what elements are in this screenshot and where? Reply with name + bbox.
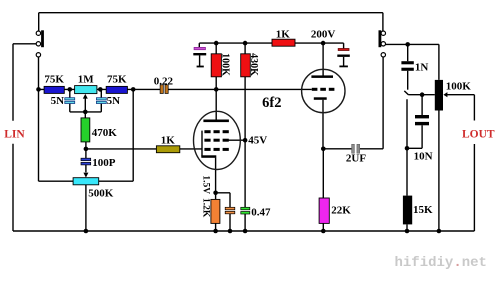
svg-text:5N: 5N [51, 95, 65, 107]
svg-text:0.47: 0.47 [251, 207, 271, 219]
wire 2UF row [323, 148, 383, 150]
wire left edge vertical (gap at LIN label) [12, 44, 14, 231]
wire top bus from left jack to right jack [39, 12, 383, 14]
jack left connector [36, 30, 44, 57]
wire left jack tip to left edge [13, 43, 36, 45]
wire 1N top lead [407, 44, 409, 61]
wire 15K branch [406, 99, 408, 231]
capacitor 1N [401, 61, 413, 71]
wire 1N bottom lead [407, 71, 409, 90]
potentiometer 500K [73, 178, 99, 185]
resistor 100K plate load [211, 54, 221, 77]
resistor 22K [319, 198, 329, 223]
pentode cathode bar [201, 155, 216, 158]
wire 500K to ground [85, 185, 87, 231]
svg-text:1K: 1K [276, 28, 291, 40]
wire bracket joining 5N caps [70, 111, 102, 113]
svg-text:LOUT: LOUT [462, 128, 495, 140]
capacitor electrolytic magenta [193, 47, 206, 55]
wire right edge up to wiper (gap at LOUT label) [446, 95, 474, 231]
magenta cap bottom stub [197, 66, 204, 68]
wire right jack tip to 100K pot top [385, 44, 439, 80]
capacitor electrolytic red [337, 49, 350, 57]
wire node B down through 10N [407, 95, 422, 149]
wire pentode cathode lead [215, 158, 217, 231]
resistor 75K left [44, 86, 64, 93]
resistor 15K [403, 196, 412, 225]
svg-text:200V: 200V [311, 28, 336, 40]
wire pentode cathode to bypass cap [216, 193, 230, 231]
wire red cap lead [343, 57, 345, 66]
capacitor 100P [81, 158, 91, 165]
resistor 430K screen [241, 54, 251, 77]
pentode plate bar [203, 120, 229, 123]
svg-text:1N: 1N [415, 61, 429, 73]
svg-text:500K: 500K [88, 187, 114, 199]
svg-text:1.5V: 1.5V [201, 175, 211, 194]
svg-text:100P: 100P [92, 157, 116, 169]
svg-text:1K: 1K [161, 135, 176, 147]
svg-text:75K: 75K [107, 74, 127, 86]
svg-text:1M: 1M [78, 74, 95, 86]
wire magenta cap leads [198, 43, 200, 66]
pentode grid row 2 [204, 139, 228, 142]
wire left jack contact down to node A [38, 57, 40, 90]
wire grid feed row with 1K [86, 148, 202, 150]
svg-text:430K: 430K [248, 53, 259, 76]
wire triode plate lead [322, 43, 324, 76]
wire 470K to 100P [85, 142, 87, 158]
wire wiper row left of pot [408, 94, 435, 96]
capacitor 0.47 [241, 207, 250, 214]
wire B+ rail [199, 43, 343, 48]
capacitor 2UF [352, 144, 360, 153]
svg-text:75K: 75K [44, 74, 64, 86]
wire screen grid to 45V node [227, 139, 245, 141]
wire 100K pot bottom to ground [438, 111, 440, 232]
svg-text:hifidiy.net: hifidiy.net [395, 255, 487, 271]
svg-text:15K: 15K [413, 204, 433, 216]
resistor 1K rail [272, 39, 295, 46]
port label LIN [3, 123, 25, 142]
pentode grid row 3 [204, 148, 228, 151]
svg-text:1.2K: 1.2K [201, 198, 211, 218]
pentode grid row 1 [204, 130, 228, 133]
wire 500K row [39, 180, 134, 182]
wire pentode plate lead [215, 89, 217, 119]
resistor 1K grid stopper [156, 146, 179, 153]
svg-text:22K: 22K [331, 205, 351, 217]
wiper arrow of 1M pot [83, 94, 88, 112]
red cap bottom stub [339, 65, 348, 67]
wire bracket node down to 470K [84, 112, 86, 118]
capacitor 5N right [96, 89, 106, 112]
wire loop right side of 500K up to tone stack [132, 89, 134, 181]
wiper arrow into 500K [83, 165, 88, 178]
resistor 1.2K cathode [211, 199, 220, 223]
svg-text:6f2: 6f2 [262, 95, 281, 111]
triode plate bar [311, 75, 333, 78]
svg-text:100K: 100K [219, 53, 230, 76]
wiper arrow of 100K pot [443, 92, 447, 97]
svg-text:0.22: 0.22 [154, 76, 174, 88]
svg-text:45V: 45V [248, 135, 267, 147]
svg-text:470K: 470K [92, 127, 118, 139]
capacitor 0.22 [160, 85, 168, 94]
potentiometer 100K output [435, 80, 443, 111]
svg-text:100K: 100K [446, 80, 472, 92]
wire right jack stem up [382, 13, 384, 31]
wire ground bus [13, 230, 474, 232]
tube 6f2 triode envelope [302, 69, 345, 112]
wire node A down to 500K row [38, 89, 40, 181]
resistor 75K right [106, 86, 127, 93]
wire signal line node A to 0.22 and to triode grid [39, 88, 312, 90]
resistor 470K [81, 118, 90, 142]
switch arm diagonal [404, 91, 408, 95]
wire left jack stem up [38, 13, 40, 31]
wire triode cathode down to 22K and ground [322, 100, 324, 231]
capacitor cathode bypass orange [225, 207, 235, 214]
svg-text:2UF: 2UF [346, 152, 366, 164]
capacitor 10N [415, 115, 429, 125]
svg-text:5N: 5N [107, 95, 121, 107]
triode grid dashes [312, 88, 335, 91]
port label LOUT [461, 122, 495, 143]
triode cathode bar [314, 97, 327, 100]
wire right jack ring down to 2UF row [382, 57, 384, 149]
potentiometer 1M [75, 86, 97, 94]
wire pentode grid vertical line [201, 131, 203, 157]
jack right connector [379, 30, 386, 57]
tube 6f2 pentode envelope [194, 111, 241, 169]
capacitor 5N left [65, 89, 75, 112]
svg-text:LIN: LIN [4, 128, 25, 140]
wire 430K leads down through 45V node to 0.47 [244, 43, 246, 231]
wire 100K plate resistor leads [215, 43, 217, 89]
svg-text:10N: 10N [414, 150, 433, 162]
